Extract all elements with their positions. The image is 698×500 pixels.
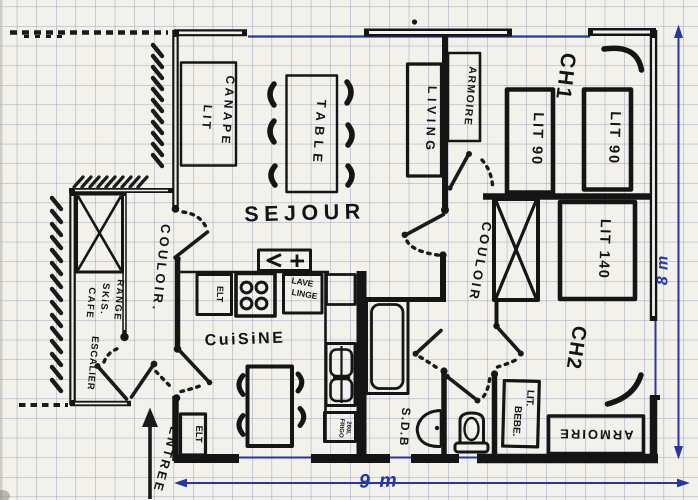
svg-text:ELT: ELT — [193, 425, 205, 443]
svg-text:8 m: 8 m — [655, 255, 672, 286]
svg-text:LIT 90: LIT 90 — [605, 111, 623, 165]
svg-text:CuiSiNE: CuiSiNE — [204, 330, 285, 350]
svg-text:S.D.B: S.D.B — [397, 407, 414, 447]
svg-text:LIT.: LIT. — [523, 389, 535, 407]
svg-text:260L: 260L — [345, 421, 352, 435]
svg-text:9 m: 9 m — [359, 469, 399, 492]
svg-text:ARMOIRE: ARMOIRE — [558, 426, 634, 442]
svg-text:ELT: ELT — [215, 286, 226, 303]
svg-text:LIT 140: LIT 140 — [595, 219, 613, 280]
svg-text:SEJOUR: SEJOUR — [244, 199, 366, 226]
svg-text:BEBE.: BEBE. — [510, 406, 523, 437]
svg-text:LIVING: LIVING — [423, 86, 439, 155]
svg-text:LIT 90: LIT 90 — [528, 112, 546, 166]
svg-text:LIT: LIT — [199, 104, 215, 132]
